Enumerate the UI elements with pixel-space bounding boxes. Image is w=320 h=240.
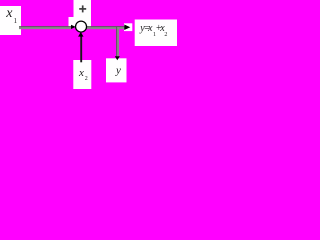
node y output box <box>106 58 127 82</box>
svg-text:2: 2 <box>164 32 167 38</box>
svg-text:y: y <box>115 65 121 77</box>
wire x2 box up to summing junction <box>80 36 82 63</box>
arrowhead down into y box <box>115 56 120 60</box>
wire summing junction to output <box>86 26 125 29</box>
wire branch dark left edge <box>116 27 118 57</box>
node x1 input box <box>0 6 21 35</box>
svg-text:1: 1 <box>14 17 18 25</box>
plus sign label above junction <box>79 5 86 12</box>
arrowhead x2 into junction bottom <box>78 32 83 37</box>
svg-text:2: 2 <box>85 76 88 82</box>
svg-text:x: x <box>5 6 13 21</box>
arrowhead x1 into junction <box>71 25 76 29</box>
wire x1 to summing junction <box>19 26 72 29</box>
white strip behind plus sign <box>74 0 92 27</box>
op summing junction circle <box>76 21 87 32</box>
white strip behind summing junction <box>69 17 92 27</box>
svg-text:x: x <box>78 67 84 79</box>
wire branch down to y box <box>116 27 119 57</box>
white halo behind output arrowhead <box>124 23 132 31</box>
arrowhead output right <box>124 25 130 31</box>
wire x1 dark top edge <box>19 26 72 28</box>
node equation box <box>135 20 177 47</box>
node x2 input box <box>73 60 91 89</box>
wire output dark top edge <box>86 26 125 28</box>
